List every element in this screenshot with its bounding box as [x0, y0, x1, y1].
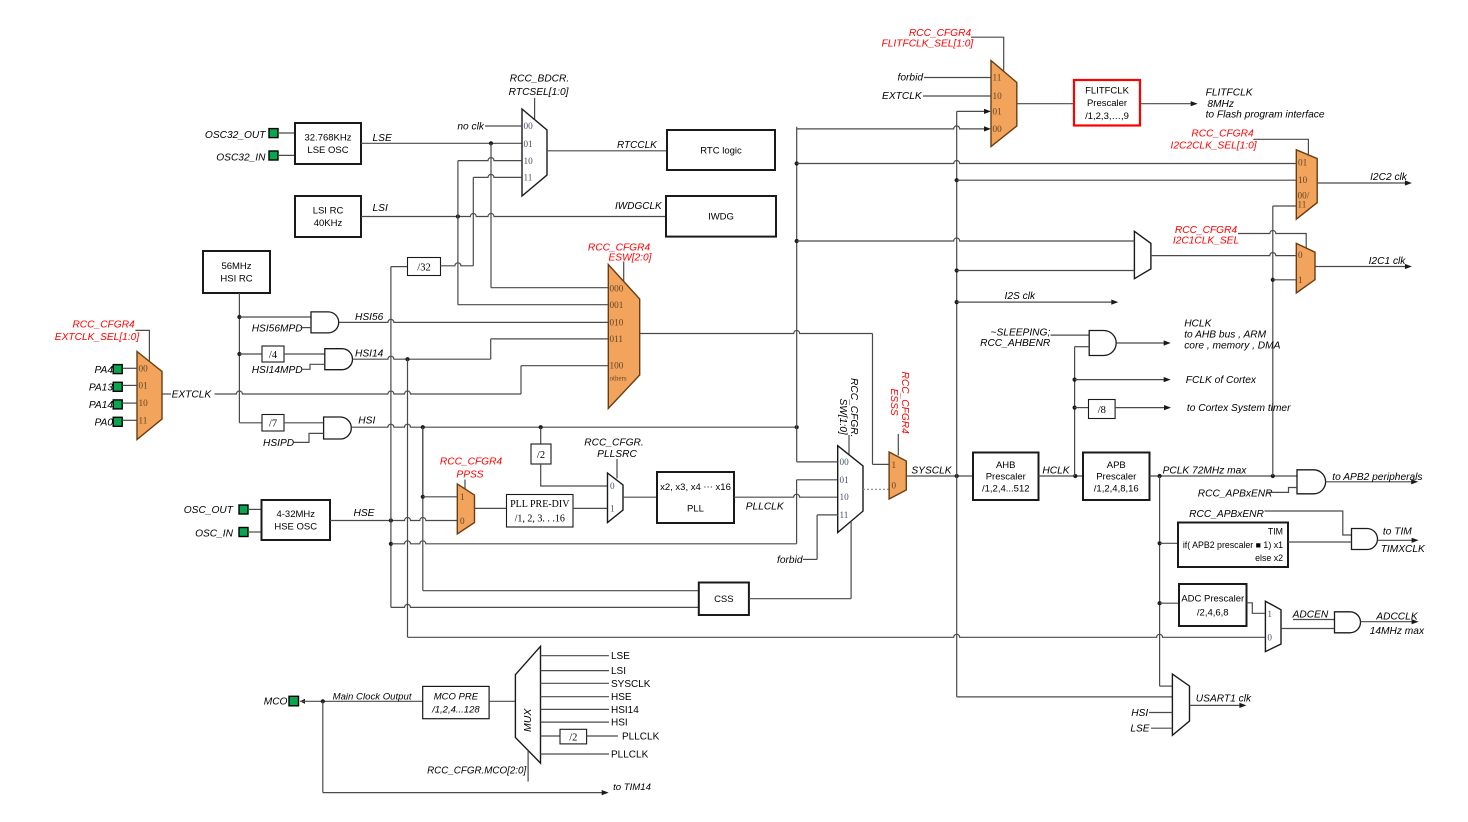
wire to TIM14 [322, 701, 324, 792]
svg-text:ADC Prescaler: ADC Prescaler [1181, 593, 1244, 604]
svg-text:011: 011 [610, 334, 624, 344]
wire SYSCLK to USART mux [957, 696, 1173, 698]
mux MCO input HSE [541, 696, 610, 698]
svg-text:others: others [610, 375, 627, 383]
svg-text:01: 01 [139, 380, 149, 390]
wire ADCCLK [1361, 621, 1413, 623]
svg-text:RCC_CFGR4: RCC_CFGR4 [1175, 225, 1238, 236]
svg-text:MCO: MCO [264, 697, 288, 708]
svg-text:I2C2 clk: I2C2 clk [1370, 172, 1408, 183]
svg-text:Prescaler: Prescaler [986, 472, 1026, 483]
svg-text:01: 01 [840, 475, 850, 485]
svg-text:/1,2,3,…,9: /1,2,3,…,9 [1085, 111, 1129, 122]
block TIM multiplier [1160, 542, 1178, 544]
svg-text:10: 10 [139, 398, 149, 408]
svg-text:IWDG: IWDG [708, 212, 734, 223]
svg-text:0: 0 [892, 481, 897, 491]
svg-text:I2S clk: I2S clk [1005, 291, 1036, 302]
mux I2C1CLK_SEL [1296, 243, 1315, 293]
svg-text:HCLK: HCLK [1042, 466, 1070, 477]
svg-text:OSC_IN: OSC_IN [195, 529, 234, 540]
svg-text:PLLCLK: PLLCLK [746, 502, 785, 513]
svg-text:11: 11 [1298, 200, 1307, 210]
mux SW [838, 446, 863, 533]
svg-text:FCLK of Cortex: FCLK of Cortex [1186, 375, 1257, 386]
svg-text:RCC_AHBENR: RCC_AHBENR [980, 338, 1051, 349]
divider /7 [262, 415, 284, 432]
block CSS [699, 583, 749, 616]
block APB Prescaler [1083, 453, 1150, 501]
mux USART1 [1172, 674, 1189, 735]
wire PCLK vertical to TIM/ADC/USART [1159, 476, 1161, 686]
mux ESSS [889, 452, 906, 499]
wire HSI14 to ADC mux 0 [408, 634, 1266, 637]
svg-text:0: 0 [1267, 633, 1272, 643]
and gate HCLK enable [1051, 334, 1090, 336]
wire HSI to CSS [422, 427, 424, 591]
svg-text:RCC_APBxENR: RCC_APBxENR [1198, 489, 1273, 500]
wire RTC 11 input (HSE/32) [472, 177, 474, 265]
svg-text:00: 00 [139, 363, 149, 373]
svg-text:11: 11 [840, 510, 849, 520]
wire LSI to ESW 001 [458, 304, 608, 306]
svg-text:EXTCLK: EXTCLK [882, 91, 923, 102]
svg-text:/2: /2 [537, 450, 545, 461]
svg-text:OSC_OUT: OSC_OUT [184, 505, 234, 516]
svg-text:SYSCLK: SYSCLK [911, 466, 952, 477]
svg-text:Prescaler: Prescaler [1087, 98, 1127, 109]
wire SYSCLK to I2C2 10 [957, 179, 1297, 181]
svg-text:RCC_CFGR4: RCC_CFGR4 [899, 372, 910, 435]
svg-text:~SLEEPING;: ~SLEEPING; [991, 328, 1051, 339]
svg-text:RCC_CFGR4: RCC_CFGR4 [909, 28, 972, 39]
and gate HSI14 [325, 349, 353, 370]
svg-text:PA0: PA0 [95, 417, 114, 428]
wire SW output dashed [863, 488, 889, 490]
mux EXTCLK_SEL [137, 352, 162, 440]
svg-text:Main Clock Output: Main Clock Output [333, 691, 412, 702]
svg-text:10: 10 [840, 492, 850, 502]
svg-text:to TIM14: to TIM14 [613, 782, 651, 793]
svg-text:1: 1 [460, 492, 465, 502]
mux PLLSRC [608, 473, 624, 523]
svg-text:PLLSRC: PLLSRC [597, 449, 637, 460]
divider /32 [391, 266, 408, 268]
svg-text:FLITFCLK: FLITFCLK [1085, 86, 1129, 97]
block PLL PRE-DIV [475, 507, 507, 509]
svg-text:LSE OSC: LSE OSC [307, 145, 348, 156]
wire HSE vertical to CSS and SW [390, 267, 392, 608]
svg-text:RCC_CFGR4: RCC_CFGR4 [440, 457, 503, 468]
svg-text:HSIPD: HSIPD [263, 438, 295, 449]
and gate HSI [324, 417, 352, 439]
wire HSE to CSS [391, 604, 699, 607]
svg-text:ADCEN: ADCEN [1292, 610, 1329, 621]
wire PCLK to I2C1 1 [1273, 279, 1297, 281]
wire PCLK to I2C2 00/11 [1272, 206, 1274, 476]
wire ESW output [640, 331, 873, 334]
svg-text:HSI: HSI [1131, 708, 1148, 719]
svg-text:10: 10 [993, 91, 1003, 101]
svg-text:/32: /32 [417, 262, 430, 273]
svg-text:RTCCLK: RTCCLK [617, 140, 658, 151]
wire HSI to SW 00 [796, 427, 798, 462]
svg-text:0: 0 [1298, 250, 1303, 260]
block MCO PRE [423, 686, 489, 718]
svg-text:RCC_CFGR.: RCC_CFGR. [584, 437, 643, 448]
wire RTC 10 input (LSI) [457, 161, 459, 305]
svg-text:010: 010 [610, 318, 624, 328]
svg-text:4-32MHz: 4-32MHz [276, 509, 315, 520]
mux MCO input SYSCLK [541, 682, 610, 684]
svg-text:00: 00 [840, 457, 850, 467]
svg-text:I2C1CLK_SEL: I2C1CLK_SEL [1173, 235, 1239, 246]
svg-text:forbid: forbid [898, 73, 924, 84]
svg-text:ESSS: ESSS [888, 389, 899, 416]
wire HSI line [351, 424, 796, 427]
svg-text:000: 000 [610, 283, 624, 293]
wire HSI14 to ESW [353, 356, 491, 359]
svg-text:32.768KHz: 32.768KHz [304, 133, 351, 144]
svg-text:0: 0 [610, 481, 615, 491]
svg-text:11: 11 [139, 415, 148, 425]
svg-text:SYSCLK: SYSCLK [611, 679, 651, 690]
svg-text:LSE: LSE [1130, 724, 1149, 735]
svg-text:AHB: AHB [996, 460, 1016, 471]
svg-text:01: 01 [524, 139, 534, 149]
block AHB Prescaler [973, 453, 1039, 501]
svg-text:PLLCLK: PLLCLK [622, 732, 660, 743]
wire HSI to premux [797, 238, 1135, 241]
svg-text:ADCCLK: ADCCLK [1375, 612, 1419, 623]
svg-text:HSI RC: HSI RC [220, 274, 252, 285]
svg-text:core , memory , DMA: core , memory , DMA [1184, 341, 1280, 352]
svg-text:RCC_BDCR.: RCC_BDCR. [510, 74, 569, 85]
svg-text:HSI14MPD: HSI14MPD [252, 365, 304, 376]
svg-text:14MHz max: 14MHz max [1370, 626, 1425, 637]
svg-text:HSI14: HSI14 [611, 705, 639, 716]
svg-text:100: 100 [610, 361, 624, 371]
mux MCO input LSE [541, 655, 610, 657]
svg-text:ESW[2:0]: ESW[2:0] [608, 252, 652, 263]
svg-text:RCC_CFGR4: RCC_CFGR4 [72, 320, 135, 331]
wire premux out to I2C1 0 [1151, 253, 1296, 256]
svg-text:RCC_CFGR.MCO[2:0]: RCC_CFGR.MCO[2:0] [427, 766, 526, 777]
svg-text:/7: /7 [269, 419, 277, 430]
mux I2C1 source premux [1134, 231, 1151, 278]
svg-text:MUX: MUX [522, 708, 534, 732]
svg-text:FLITFCLK_SEL[1:0]: FLITFCLK_SEL[1:0] [882, 39, 975, 50]
mux MCO input HSI14 [541, 708, 610, 710]
svg-text:40KHz: 40KHz [314, 218, 343, 229]
svg-text:LSE: LSE [373, 133, 392, 144]
svg-text:1: 1 [1298, 275, 1303, 285]
svg-text:/2,4,6,8: /2,4,6,8 [1197, 607, 1229, 618]
wire PCLK to USART mux [1160, 685, 1173, 687]
svg-text:01: 01 [1298, 158, 1308, 168]
svg-text:/4: /4 [269, 350, 278, 361]
svg-text:Prescaler: Prescaler [1096, 472, 1136, 483]
svg-text:TIM: TIM [1268, 527, 1283, 537]
divider /2 for PLL [540, 427, 542, 444]
svg-text:APB: APB [1107, 460, 1126, 471]
wire LSE vertical [490, 143, 492, 287]
svg-text:10: 10 [1298, 175, 1308, 185]
svg-text:PA13: PA13 [89, 382, 113, 393]
svg-text:HSI14: HSI14 [355, 349, 384, 360]
svg-text:HSI: HSI [358, 416, 375, 427]
svg-text:EXTCLK_SEL[1:0]: EXTCLK_SEL[1:0] [55, 332, 141, 343]
svg-text:RCC_CFGR4: RCC_CFGR4 [1191, 128, 1254, 139]
svg-text:TIMXCLK: TIMXCLK [1381, 544, 1426, 555]
svg-text:11: 11 [524, 172, 533, 182]
svg-text:OSC32_IN: OSC32_IN [216, 153, 266, 164]
svg-text:IWDGCLK: IWDGCLK [615, 201, 663, 212]
svg-text:PCLK 72MHz max: PCLK 72MHz max [1163, 466, 1248, 477]
svg-text:HSE: HSE [354, 508, 375, 519]
mux MCO input LSI [541, 670, 610, 672]
wire LSE to ESW 000 [491, 287, 608, 289]
svg-text:I2C2CLK_SEL[1:0]: I2C2CLK_SEL[1:0] [1171, 140, 1258, 151]
oscillator LSE OSC [295, 123, 361, 164]
svg-text:/1,2,4...128: /1,2,4...128 [431, 704, 480, 715]
svg-text:SW[1:0]: SW[1:0] [837, 399, 848, 436]
svg-text:PLL PRE-DIV: PLL PRE-DIV [510, 499, 570, 510]
svg-text:x2, x3, x4 ⋯ x16: x2, x3, x4 ⋯ x16 [660, 482, 731, 493]
svg-text:PA4: PA4 [95, 365, 114, 376]
svg-text:MCO PRE: MCO PRE [434, 691, 479, 702]
oscillator HSI RC 56MHz [203, 251, 270, 293]
svg-text:RTCSEL[1:0]: RTCSEL[1:0] [509, 87, 570, 98]
svg-text:no clk: no clk [457, 121, 485, 132]
wire SYSCLK to premux [957, 270, 1135, 272]
svg-text:HSI: HSI [611, 718, 628, 729]
block PLL [623, 496, 657, 498]
svg-text:1: 1 [892, 460, 897, 470]
and gate APB2 peripherals [1297, 470, 1326, 494]
svg-text:to AHB bus , ARM: to AHB bus , ARM [1184, 330, 1266, 341]
wire SYSCLK vertical bus [956, 111, 958, 697]
mux MCO [515, 646, 540, 763]
svg-text:PPSS: PPSS [456, 470, 483, 481]
svg-text:PLLCLK: PLLCLK [611, 750, 649, 761]
wire FLITFCLK output [1140, 103, 1191, 105]
svg-text:1: 1 [1267, 609, 1272, 619]
svg-text:if( APB2 prescaler ■ 1) x1: if( APB2 prescaler ■ 1) x1 [1183, 540, 1283, 550]
and gate TIM enable [1352, 529, 1378, 550]
wire HSI RC down bus [238, 293, 240, 423]
svg-text:LSI: LSI [373, 203, 388, 214]
wire HSI to I2C2 01 [797, 161, 1297, 164]
block ADC Prescaler [1160, 602, 1179, 604]
svg-text:EXTCLK: EXTCLK [172, 389, 213, 400]
divider /8 [1075, 407, 1089, 409]
block FLITFCLK Prescaler [1017, 103, 1074, 105]
svg-text:OSC32_OUT: OSC32_OUT [205, 130, 266, 141]
svg-text:11: 11 [993, 73, 1002, 83]
wire FCLK of Cortex [1075, 379, 1165, 381]
svg-text:RCC_CFGR.: RCC_CFGR. [848, 378, 859, 437]
svg-text:/1, 2, 3. . .16: /1, 2, 3. . .16 [515, 514, 565, 525]
mux ADC source [1247, 603, 1265, 614]
oscillator HSE OSC [262, 500, 331, 540]
svg-text:to APB2 peripherals: to APB2 peripherals [1332, 472, 1422, 483]
mux PPSS [457, 484, 474, 534]
divider /2 MCO PLLCLK [541, 735, 561, 737]
svg-text:/1,2,4...512: /1,2,4...512 [982, 483, 1030, 494]
svg-text:HSI56MPD: HSI56MPD [252, 324, 304, 335]
wire HSI to PPSS [422, 427, 424, 497]
svg-text:HCLK: HCLK [1184, 319, 1212, 330]
mux FLITFCLK_SEL [991, 61, 1017, 147]
svg-text:8MHz: 8MHz [1207, 99, 1234, 110]
wire HSI14 vertical to ADC [407, 359, 409, 637]
block IWDG [666, 196, 776, 237]
svg-text:forbid: forbid [777, 555, 803, 566]
svg-text:HSI56: HSI56 [355, 312, 384, 323]
svg-text:LSE: LSE [611, 651, 630, 662]
svg-text:to TIM: to TIM [1383, 527, 1412, 538]
svg-text:00: 00 [524, 121, 534, 131]
svg-text:FLITFCLK: FLITFCLK [1206, 88, 1254, 99]
svg-text:10: 10 [524, 156, 534, 166]
wire HCLK to AHB bus [1116, 342, 1164, 344]
mux RTCSEL [534, 98, 536, 120]
svg-text:001: 001 [610, 300, 624, 310]
mux I2C2CLK_SEL [1296, 150, 1317, 219]
svg-text:USART1 clk: USART1 clk [1196, 694, 1252, 705]
svg-text:/1,2,4,8,16: /1,2,4,8,16 [1094, 483, 1139, 494]
wire TIMXCLK [1378, 539, 1413, 541]
mux MCO input HSI [541, 721, 610, 723]
oscillator LSI RC [295, 196, 361, 237]
svg-text:LSI: LSI [611, 666, 626, 677]
svg-text:RCC_APBxENR: RCC_APBxENR [1189, 509, 1264, 520]
svg-text:PA14: PA14 [89, 400, 113, 411]
and gate HSI56 [239, 316, 311, 318]
svg-text:RTC logic: RTC logic [700, 145, 742, 156]
svg-text:56MHz: 56MHz [221, 261, 251, 272]
svg-text:00: 00 [993, 124, 1003, 134]
svg-text:CSS: CSS [714, 594, 734, 605]
svg-text:to Cortex System timer: to Cortex System timer [1187, 403, 1291, 414]
svg-text:I2C1 clk: I2C1 clk [1369, 256, 1407, 267]
block RTC logic [667, 130, 775, 170]
mux ESW [608, 265, 639, 409]
mux MCO input PLLCLK [541, 753, 610, 755]
svg-text:LSI RC: LSI RC [313, 206, 344, 217]
svg-text:/2: /2 [569, 732, 577, 743]
svg-text:HSE: HSE [611, 692, 632, 703]
svg-text:to Flash program interface: to Flash program interface [1206, 110, 1325, 121]
svg-text:else x2: else x2 [1255, 553, 1283, 563]
svg-text:PLL: PLL [687, 504, 704, 515]
svg-text:0: 0 [460, 516, 465, 526]
svg-text:/8: /8 [1098, 405, 1106, 416]
wire HSI vertical bus [796, 127, 798, 427]
divider /4 [239, 353, 262, 355]
svg-text:01: 01 [993, 106, 1003, 116]
wire HSI56 to ESW [339, 319, 609, 322]
svg-text:1: 1 [610, 504, 615, 514]
svg-text:HSE OSC: HSE OSC [274, 522, 317, 533]
